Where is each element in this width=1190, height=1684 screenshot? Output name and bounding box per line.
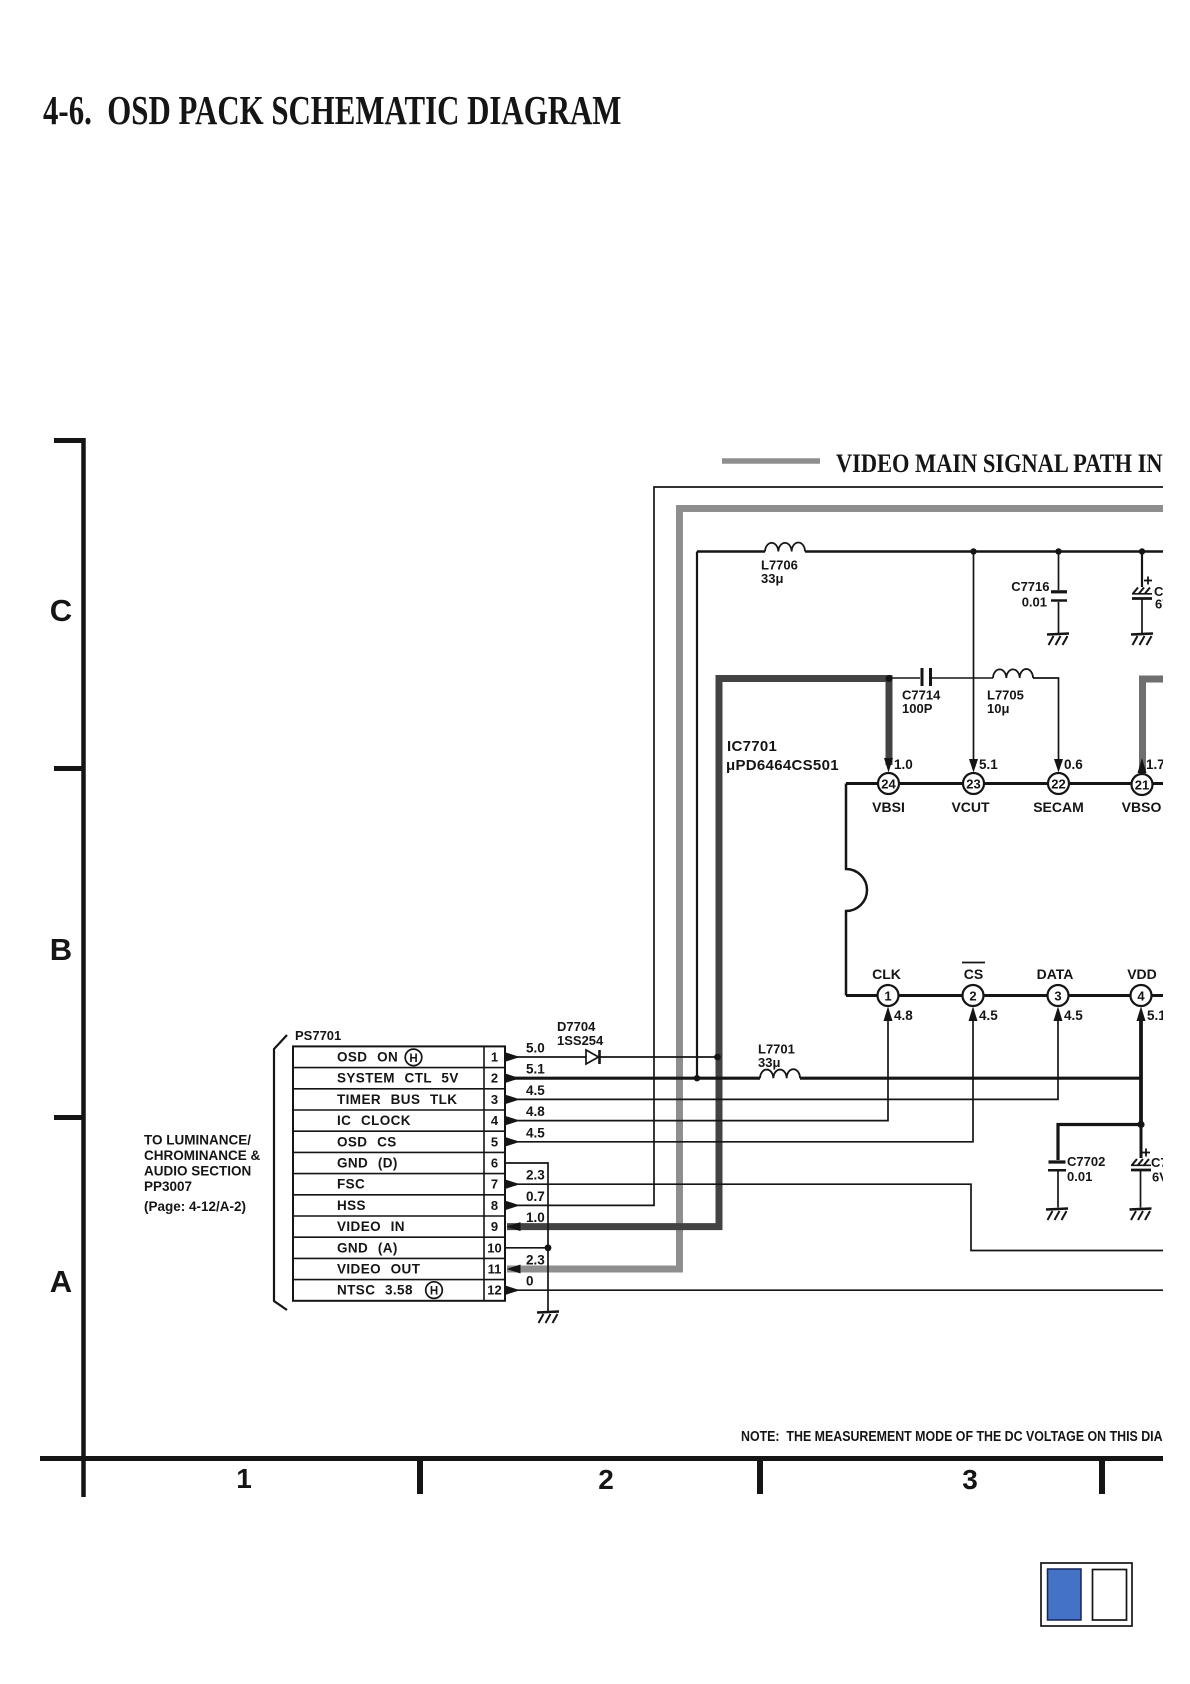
- svg-text:TIMER BUS TLK: TIMER BUS TLK: [337, 1092, 457, 1107]
- connector pin numbers: [487, 1050, 501, 1298]
- svg-text:C7: C7: [1151, 1155, 1168, 1170]
- pin 23: [963, 773, 984, 794]
- svg-text:VIDEO IN: VIDEO IN: [337, 1219, 405, 1234]
- svg-text:10: 10: [487, 1240, 501, 1255]
- junction dot rail/C7717: [1139, 548, 1145, 554]
- svg-text:4: 4: [491, 1113, 499, 1128]
- svg-text:12: 12: [487, 1283, 501, 1298]
- border frame left: [54, 438, 84, 1497]
- svg-text:4: 4: [1137, 989, 1145, 1004]
- wire CLK to connector pin 4: [505, 1021, 888, 1121]
- svg-text:24: 24: [881, 777, 896, 792]
- svg-text:TO LUMINANCE/: TO LUMINANCE/: [144, 1133, 251, 1148]
- arrow into pin 3: [1054, 1007, 1063, 1022]
- svg-text:2: 2: [598, 1464, 614, 1495]
- svg-text:VIDEO OUT: VIDEO OUT: [337, 1262, 421, 1277]
- svg-text:11: 11: [488, 1262, 502, 1277]
- svg-text:1: 1: [884, 989, 891, 1004]
- svg-text:FSC: FSC: [337, 1177, 365, 1192]
- ground under C7702: [1046, 1209, 1068, 1221]
- svg-text:AUDIO SECTION: AUDIO SECTION: [144, 1164, 251, 1179]
- wire VCUT from rail to pin 23: [973, 552, 975, 761]
- inductor L7701: [760, 1069, 800, 1078]
- connector row labels: [337, 1050, 459, 1298]
- connector voltage values: [526, 1041, 545, 1289]
- svg-text:HSS: HSS: [337, 1198, 366, 1213]
- arrow into pin 4: [1137, 1007, 1146, 1022]
- svg-text:4.5: 4.5: [979, 1008, 998, 1023]
- svg-text:OSD ON: OSD ON: [337, 1050, 398, 1065]
- inductor L7706: [765, 543, 805, 552]
- svg-text:3: 3: [1054, 989, 1061, 1004]
- op-amp IC7701 outline: [846, 784, 1163, 996]
- svg-text:μPD6464CS501: μPD6464CS501: [726, 757, 839, 774]
- arrow into pin 24: [884, 758, 893, 773]
- svg-text:0.01: 0.01: [1022, 595, 1047, 610]
- wire FSC extension: [505, 1184, 1163, 1250]
- pin 22: [1048, 773, 1069, 794]
- svg-text:23: 23: [966, 777, 980, 792]
- svg-text:VIDEO MAIN SIGNAL PATH IN: VIDEO MAIN SIGNAL PATH IN: [836, 450, 1163, 479]
- svg-text:SYSTEM CTL 5V: SYSTEM CTL 5V: [337, 1071, 459, 1086]
- svg-text:5: 5: [491, 1134, 498, 1149]
- page legend squares: [1041, 1563, 1132, 1626]
- svg-text:4.8: 4.8: [526, 1104, 545, 1119]
- wire GND(D)/GND(A): [505, 1163, 548, 1311]
- svg-text:C7702: C7702: [1067, 1154, 1105, 1169]
- svg-text:4.5: 4.5: [526, 1083, 545, 1098]
- svg-text:6V: 6V: [1152, 1170, 1168, 1185]
- svg-text:5.0: 5.0: [526, 1041, 545, 1056]
- pin 1: [878, 985, 899, 1006]
- svg-text:PS7701: PS7701: [295, 1028, 341, 1043]
- svg-text:0.7: 0.7: [526, 1189, 545, 1204]
- svg-text:1.7: 1.7: [1146, 757, 1165, 772]
- junction dot rail/VCUT: [970, 548, 976, 554]
- svg-text:21: 21: [1135, 778, 1149, 793]
- wire L7705 to pin 22: [1033, 678, 1059, 760]
- svg-text:DATA: DATA: [1037, 966, 1074, 982]
- svg-text:0.6: 0.6: [1064, 757, 1083, 772]
- svg-text:IC CLOCK: IC CLOCK: [337, 1113, 411, 1128]
- wire VDD tee to C7702: [1058, 1125, 1141, 1161]
- wire HSS net (pin8 up and across top): [505, 487, 1163, 1205]
- svg-text:D7704: D7704: [557, 1019, 596, 1034]
- svg-text:0: 0: [526, 1274, 534, 1289]
- svg-text:10μ: 10μ: [987, 701, 1009, 716]
- svg-text:6V: 6V: [1155, 597, 1171, 612]
- svg-text:VDD: VDD: [1127, 966, 1157, 982]
- svg-text:CLK: CLK: [872, 966, 901, 982]
- svg-text:33μ: 33μ: [761, 571, 783, 586]
- svg-text:CS: CS: [964, 966, 983, 982]
- capacitor C7717 electrolytic: [1132, 552, 1152, 634]
- note TO LUMINANCE block: [144, 1133, 260, 1215]
- pin 2: [963, 985, 984, 1006]
- junction dot 5V/pin2: [694, 1075, 700, 1081]
- svg-text:C7716: C7716: [1011, 579, 1049, 594]
- svg-text:(Page: 4-12/A-2): (Page: 4-12/A-2): [144, 1199, 246, 1214]
- connector PS7701 box: [293, 1046, 505, 1300]
- junction dot rail/C7716: [1055, 548, 1061, 554]
- svg-text:8: 8: [491, 1198, 498, 1213]
- svg-text:CHROMINANCE &: CHROMINANCE &: [144, 1148, 260, 1163]
- svg-text:B: B: [50, 932, 72, 967]
- svg-text:100P: 100P: [902, 701, 933, 716]
- legend sample line: [722, 458, 820, 464]
- arrows out of pins 1-5,7,8,12: [506, 1053, 520, 1295]
- diode D7704: [586, 1050, 717, 1064]
- ground under C7703: [1130, 1209, 1152, 1221]
- svg-text:NTSC 3.58: NTSC 3.58: [337, 1283, 413, 1298]
- wire 5V rail: [505, 552, 1163, 1079]
- pin 3: [1048, 985, 1069, 1006]
- svg-text:3: 3: [962, 1464, 978, 1495]
- wire NTSC 3.58: [505, 1289, 1163, 1291]
- pin 24: [878, 773, 899, 794]
- svg-text:6: 6: [491, 1156, 498, 1171]
- svg-text:H: H: [430, 1286, 438, 1298]
- connector PS7701 brace: [274, 1035, 287, 1310]
- arrow into pin 2: [969, 1007, 978, 1022]
- capacitor C7702: [1048, 1162, 1066, 1208]
- wire VBSO path (gray thick): [1143, 679, 1164, 776]
- pin 21: [1132, 774, 1153, 795]
- svg-text:4-6. OSD PACK SCHEMATIC DIAGR: 4-6. OSD PACK SCHEMATIC DIAGRAM: [43, 88, 621, 133]
- svg-text:0.01: 0.01: [1067, 1169, 1092, 1184]
- svg-text:5.1: 5.1: [1147, 1008, 1166, 1023]
- svg-text:OSD CS: OSD CS: [337, 1134, 397, 1149]
- svg-text:4.5: 4.5: [1064, 1008, 1083, 1023]
- arrow into pin 1: [884, 1007, 893, 1022]
- capacitor C7714: [889, 668, 993, 686]
- svg-text:2: 2: [491, 1071, 498, 1086]
- circled H row 12: [426, 1282, 443, 1299]
- svg-text:PP3007: PP3007: [144, 1179, 192, 1194]
- svg-text:IC7701: IC7701: [727, 738, 777, 755]
- junction dot GND(A): [545, 1244, 552, 1251]
- svg-text:1.0: 1.0: [894, 757, 913, 772]
- svg-text:7: 7: [491, 1177, 498, 1192]
- wire DATA to connector pin 3: [505, 1021, 1058, 1099]
- arrows into pins 9,11: [507, 1222, 521, 1273]
- ground under C7716: [1047, 634, 1069, 646]
- capacitor C7716: [1051, 552, 1067, 634]
- capacitor C7703 electrolytic: [1131, 1125, 1151, 1208]
- svg-text:9: 9: [491, 1219, 498, 1234]
- svg-text:2.3: 2.3: [526, 1253, 545, 1268]
- svg-text:2.3: 2.3: [526, 1168, 545, 1183]
- svg-text:4.5: 4.5: [526, 1125, 545, 1140]
- svg-text:1SS254: 1SS254: [557, 1033, 604, 1048]
- svg-text:A: A: [50, 1264, 72, 1299]
- circled H row 1: [405, 1049, 422, 1066]
- svg-text:2: 2: [969, 989, 976, 1004]
- wire CS to connector pin 5: [505, 1021, 973, 1142]
- svg-text:5.1: 5.1: [526, 1062, 545, 1077]
- wire pin1 OSD ON to diode: [505, 1056, 586, 1058]
- svg-text:H: H: [409, 1053, 417, 1065]
- svg-text:GND (A): GND (A): [337, 1240, 398, 1255]
- svg-text:NOTE: THE MEASUREMENT MODE OF: NOTE: THE MEASUREMENT MODE OF THE DC VOL…: [741, 1428, 1190, 1444]
- svg-text:VBSI: VBSI: [872, 799, 905, 815]
- svg-text:1.0: 1.0: [526, 1210, 545, 1225]
- arrow out of pin 21: [1138, 758, 1147, 773]
- ground under connector: [537, 1312, 559, 1324]
- svg-text:33μ: 33μ: [758, 1055, 780, 1070]
- svg-text:SECAM: SECAM: [1033, 799, 1084, 815]
- border frame bottom: [40, 1458, 1163, 1494]
- svg-text:VCUT: VCUT: [951, 799, 990, 815]
- junction dot OSD ON end: [714, 1054, 721, 1061]
- svg-text:C: C: [50, 593, 72, 628]
- wire VDD vertical: [1139, 1021, 1143, 1125]
- svg-text:GND (D): GND (D): [337, 1156, 398, 1171]
- wire VIDEO IN path (dark gray thick): [507, 679, 889, 1227]
- svg-text:1: 1: [236, 1463, 252, 1494]
- wire VIDEO OUT path (gray thick): [507, 509, 1163, 1270]
- svg-text:3: 3: [491, 1092, 498, 1107]
- svg-text:1: 1: [491, 1050, 498, 1065]
- junction dot VDD tee: [1137, 1121, 1144, 1128]
- svg-text:VBSO: VBSO: [1122, 799, 1162, 815]
- ground under C7717: [1131, 634, 1153, 646]
- inductor L7705: [993, 669, 1033, 678]
- pin 4: [1131, 985, 1152, 1006]
- svg-text:4.8: 4.8: [894, 1008, 913, 1023]
- svg-text:5.1: 5.1: [979, 757, 998, 772]
- svg-text:22: 22: [1051, 777, 1065, 792]
- junction dot VIDEO IN / C7714 node: [886, 675, 893, 682]
